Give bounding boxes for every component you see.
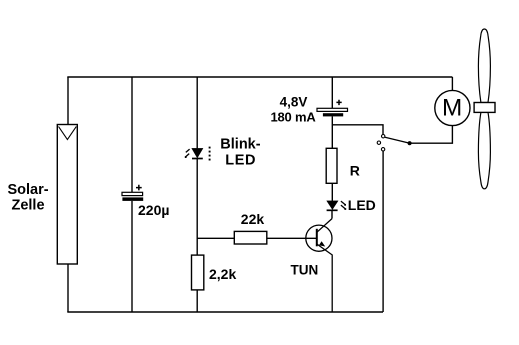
svg-text:Solar-: Solar- (7, 182, 48, 198)
wire switch to motor (411, 126, 452, 144)
transistor emitter arrow (319, 241, 325, 246)
solar cell body (57, 125, 77, 265)
battery plus sign (336, 100, 341, 105)
wire capacitor bottom lead (131, 201, 133, 312)
battery B1 short plate (323, 113, 343, 116)
blink-LED emission arrows (185, 149, 189, 157)
wire base junction to 22k (197, 237, 234, 239)
transistor base bar (316, 229, 318, 247)
svg-text:220µ: 220µ (138, 202, 169, 218)
svg-text:LED: LED (225, 152, 256, 168)
wire bottom rail (67, 311, 383, 313)
resistor 22k (234, 231, 266, 244)
blink-LED dotted flasher mark (209, 147, 211, 161)
capacitor C1 minus plate (122, 197, 143, 201)
wire battery branch to switch (332, 125, 383, 135)
switch S1 lever (385, 137, 409, 143)
switch S1 bottom terminal (381, 148, 384, 151)
wire R to LED (331, 183, 333, 201)
wire top rail (67, 76, 452, 78)
svg-text:M: M (442, 94, 462, 121)
svg-text:Blink-: Blink- (220, 137, 260, 153)
wire motor top lead (451, 77, 453, 91)
svg-text:22k: 22k (241, 211, 265, 227)
blink-LED triangle (192, 148, 203, 157)
LED D2 triangle (327, 201, 338, 209)
resistor 2,2k (192, 255, 204, 290)
wire battery to R resistor (331, 116, 333, 148)
wire solar top lead (67, 77, 69, 125)
wire blink-led top lead (196, 77, 198, 148)
resistor R (326, 148, 337, 183)
wire 2,2k resistor bottom lead (196, 290, 198, 312)
LED D2 cathode bar (327, 209, 338, 211)
svg-text:2,2k: 2,2k (209, 266, 236, 282)
transistor collector (317, 219, 332, 233)
svg-text:Zelle: Zelle (11, 198, 44, 214)
transistor emitter (317, 244, 332, 312)
propeller top blade (478, 29, 490, 103)
wire LED to collector (331, 210, 333, 218)
svg-text:TUN: TUN (291, 263, 319, 278)
motor M circle (435, 90, 470, 125)
wire solar bottom lead (67, 264, 69, 312)
svg-text:4,8V: 4,8V (280, 94, 308, 109)
svg-text:LED: LED (348, 197, 376, 213)
LED emission arrows (341, 201, 345, 208)
wire battery top lead (331, 77, 333, 108)
wire switch to bottom rail (382, 151, 384, 312)
propeller hub (474, 103, 495, 113)
svg-text:180 mA: 180 mA (270, 109, 316, 124)
wire capacitor top lead (131, 77, 133, 192)
solar cell chevron (59, 127, 77, 140)
battery B1 long plate (317, 108, 348, 111)
propeller bottom blade (478, 112, 490, 188)
switch S1 open contact (377, 141, 380, 144)
transistor Q1 circle (306, 225, 332, 251)
capacitor C1 plus plate (122, 192, 143, 195)
switch S1 top terminal (382, 135, 385, 138)
wire blink-led to 2,2k resistor (196, 159, 198, 256)
blink-LED cathode bar (192, 158, 203, 160)
capacitor plus sign (136, 185, 142, 191)
wire 22k to transistor base (267, 237, 317, 239)
svg-text:R: R (350, 163, 360, 179)
switch S1 junction dot (408, 141, 412, 145)
